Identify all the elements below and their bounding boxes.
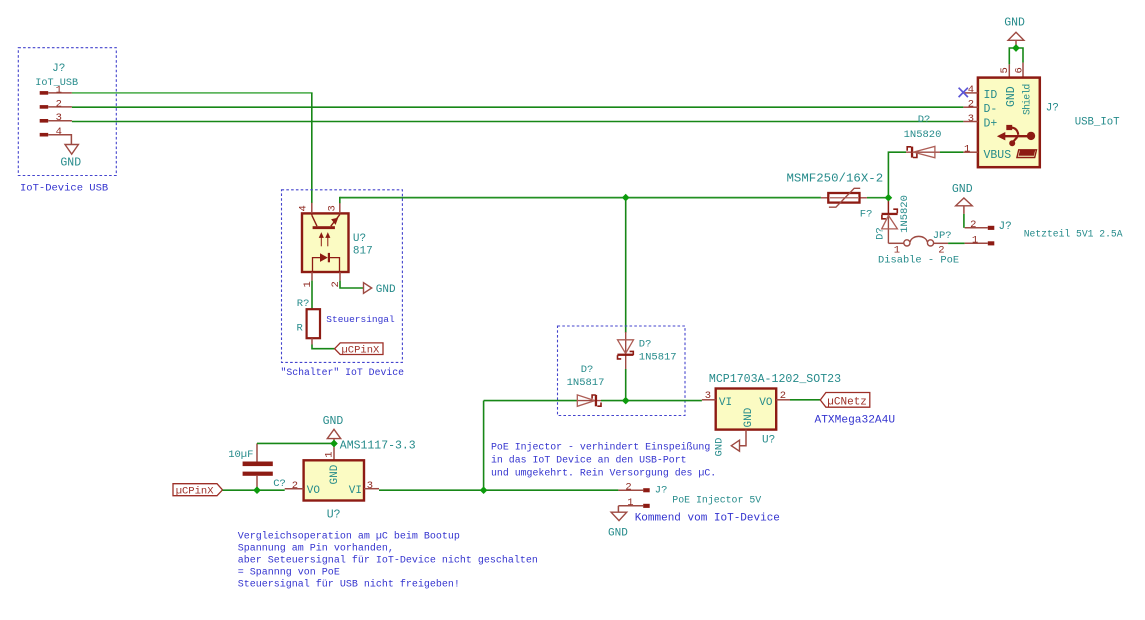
jumper JP? Disable-PoE	[888, 230, 951, 257]
AMS1117 pin 1 stub	[324, 448, 336, 461]
wire main 5V rail horizontal	[340, 197, 821, 199]
net label uCPinX (bottom)	[173, 484, 223, 498]
wire D+ net	[72, 121, 964, 123]
svg-text:ID: ID	[984, 89, 998, 102]
wire AMS VI to J? PoE injector	[379, 489, 618, 491]
opto U1 LED	[313, 253, 340, 272]
svg-text:GND: GND	[1004, 16, 1025, 29]
svg-text:U?: U?	[762, 435, 775, 447]
svg-text:IoT-Device USB: IoT-Device USB	[20, 182, 108, 194]
svg-text:MCP1703A-1202_SOT23: MCP1703A-1202_SOT23	[709, 373, 841, 386]
wire jumper to Netzteil pin1	[948, 242, 965, 244]
svg-text:10µF: 10µF	[228, 449, 253, 461]
net label uCNetz	[820, 393, 870, 409]
net label uCPinX (opto drive)	[335, 343, 383, 357]
USB J? pin 3 D+ stub	[963, 113, 978, 125]
svg-text:1N5817: 1N5817	[567, 377, 605, 389]
svg-text:VI: VI	[719, 397, 732, 409]
svg-text:und umgekehrt. Rein Versorgung: und umgekehrt. Rein Versorgung des µC.	[491, 467, 716, 478]
svg-text:J?: J?	[655, 485, 668, 497]
svg-text:Shield: Shield	[1022, 84, 1033, 115]
svg-text:in das IoT Device an den USB-P: in das IoT Device an den USB-Port	[491, 454, 687, 465]
wire junction down to disable diode	[887, 198, 889, 213]
svg-text:USB_IoT: USB_IoT	[1075, 116, 1120, 128]
svg-text:D?: D?	[581, 364, 594, 376]
wire D- net	[72, 106, 964, 108]
svg-text:PoE Injector - verhindert Eins: PoE Injector - verhindert Einspeißung	[491, 441, 710, 452]
opto U1 pin 1 stub	[302, 272, 314, 288]
fuse F? body	[821, 188, 873, 220]
wire resistor to uCPinX	[312, 338, 335, 349]
svg-text:MSMF250/16X-2: MSMF250/16X-2	[787, 171, 884, 185]
svg-text:GND: GND	[952, 183, 973, 196]
wire vertical poe to bottom rail	[483, 401, 485, 491]
svg-text:GND: GND	[608, 528, 628, 540]
svg-text:Steuersignal für USB nicht fre: Steuersignal für USB nicht freigeben!	[238, 579, 460, 591]
USB J? pin 2 D- stub	[963, 99, 978, 111]
svg-text:AMS1117-3.3: AMS1117-3.3	[340, 440, 416, 453]
svg-text:J?: J?	[999, 221, 1012, 233]
opto U1 phototransistor	[312, 213, 340, 229]
svg-text:D?: D?	[918, 114, 931, 126]
opto U1 pin 2 stub	[330, 272, 342, 288]
svg-text:C?: C?	[273, 478, 286, 490]
opto U1 pin 4 stub	[298, 203, 312, 214]
svg-text:GND: GND	[329, 464, 341, 484]
regulator U? MCP1703A body	[716, 389, 777, 430]
wire branch down from rail to PoE diode	[625, 198, 627, 333]
MCP1703 pin 2 VO	[759, 390, 790, 409]
USB receptacle icon	[1017, 150, 1037, 158]
svg-text:GND: GND	[376, 284, 396, 296]
svg-text:2: 2	[968, 99, 974, 111]
svg-text:3: 3	[327, 205, 339, 211]
frame PoE injector (dashed)	[558, 326, 686, 416]
svg-text:D?: D?	[874, 227, 886, 240]
capacitor C? lead top	[256, 443, 258, 461]
svg-text:2: 2	[56, 98, 62, 110]
junction GND usb top	[1012, 44, 1020, 52]
svg-text:"Schalter" IoT Device: "Schalter" IoT Device	[281, 367, 405, 378]
ground GND (USB_IoT top)	[1004, 16, 1025, 45]
diode D? 1N5820 (VBUS, horizontal)	[904, 114, 942, 158]
ground GND (AMS1117) symbol	[327, 429, 340, 447]
wire left feed into PoE diode	[484, 400, 578, 402]
wire MCP VO to uCNetz	[790, 399, 820, 401]
svg-text:Kommend vom IoT-Device: Kommend vom IoT-Device	[635, 512, 780, 524]
diode D? 1N5817 (horizontal)	[567, 364, 605, 406]
wire net1 vertical down to opto pin4	[311, 93, 313, 203]
wire diode to VBUS pin	[940, 151, 963, 153]
svg-text:1: 1	[964, 144, 970, 156]
ground GND (Netzteil)	[952, 183, 973, 228]
svg-text:3: 3	[367, 480, 373, 492]
svg-text:GND: GND	[60, 156, 81, 169]
wire GND to USB pins 5,6	[1009, 45, 1023, 64]
svg-text:GND: GND	[323, 415, 344, 428]
svg-text:1N5820: 1N5820	[899, 195, 911, 233]
junction capacitor	[253, 486, 261, 494]
svg-text:= Spannng von PoE: = Spannng von PoE	[238, 568, 340, 579]
USB connector J? USB_IoT body	[978, 78, 1040, 168]
svg-text:PoE Injector 5V: PoE Injector 5V	[672, 495, 761, 506]
MCP1703 pin 1 GND stub to ground	[740, 430, 746, 446]
svg-text:VO: VO	[759, 397, 773, 409]
svg-text:D-: D-	[984, 103, 998, 116]
svg-text:817: 817	[353, 246, 373, 258]
USB connector J? pin 6 stub	[1013, 63, 1025, 78]
svg-text:4: 4	[298, 205, 310, 211]
opto U1 pin 3 stub	[327, 203, 340, 214]
wire net1 horizontal (pin1 to opto)	[72, 92, 313, 94]
junction poe diodes	[622, 397, 630, 405]
svg-text:D?: D?	[639, 339, 652, 351]
wire uCPinX to AMS VO	[223, 489, 285, 491]
svg-text:J?: J?	[52, 63, 65, 75]
wire opto pin3 up to main rail	[339, 197, 341, 203]
svg-text:3: 3	[968, 113, 974, 125]
opto U1 light arrows	[320, 233, 330, 246]
connector J? pin 4	[40, 126, 72, 144]
frame "Schalter" IoT Device (dashed)	[282, 190, 403, 363]
svg-text:Netzteil 5V1 2.5A: Netzteil 5V1 2.5A	[1024, 228, 1123, 239]
svg-text:3: 3	[705, 390, 711, 402]
diode D? 1N5817 (vertical)	[617, 332, 676, 370]
svg-text:J?: J?	[1046, 103, 1059, 115]
svg-text:1N5820: 1N5820	[904, 129, 942, 141]
svg-text:1: 1	[972, 235, 978, 247]
svg-text:6: 6	[1013, 67, 1025, 73]
svg-text:2: 2	[625, 482, 631, 494]
connector J? pin 3	[40, 112, 72, 124]
ground GND (IoT-Device USB)	[60, 145, 81, 170]
svg-text:Vergleichsoperation am µC beim: Vergleichsoperation am µC beim Bootup	[238, 531, 460, 543]
USB J? pin 1 VBUS stub	[963, 144, 978, 156]
wire fuse to junction	[867, 197, 889, 199]
connector J? pin 1	[40, 84, 72, 96]
svg-text:4: 4	[56, 126, 62, 138]
svg-text:JP?: JP?	[933, 230, 952, 242]
USB pin names	[984, 84, 1033, 162]
svg-text:Disable - PoE: Disable - PoE	[878, 255, 959, 267]
connector J? PoE Injector 5V pin 1	[618, 497, 649, 512]
svg-text:R: R	[297, 322, 304, 334]
svg-text:Steuersingal: Steuersingal	[326, 314, 395, 325]
svg-text:µCNetz: µCNetz	[827, 396, 867, 408]
AMS1117 pin 2 VO	[285, 480, 321, 497]
svg-text:VBUS: VBUS	[984, 149, 1012, 162]
svg-text:1: 1	[627, 497, 633, 509]
diode D? 1N5820 (vertical, disable)	[874, 195, 911, 243]
resistor R? body	[307, 309, 320, 338]
MCP1703 pin 3 VI	[702, 390, 732, 409]
USB trident logo	[997, 125, 1035, 146]
ground GND (J? PoE pin1)	[608, 512, 628, 540]
regulator U? AMS1117 body	[304, 460, 364, 500]
junction rail/branch	[622, 194, 630, 202]
wire opto pin1 to resistor	[311, 281, 313, 310]
capacitor C? lead bottom	[256, 476, 258, 488]
svg-text:µCPinX: µCPinX	[342, 345, 381, 357]
svg-text:1: 1	[56, 84, 62, 96]
connector J? pin 2	[40, 98, 72, 110]
wire opto pin2 to GND	[340, 281, 363, 288]
wire poe junction to MCP1703 VI	[601, 400, 702, 402]
svg-text:F?: F?	[860, 209, 873, 221]
USB connector J? pin 5 stub	[999, 64, 1011, 77]
opto-coupler U1 817 body	[302, 213, 349, 272]
junction rail/fuse	[885, 194, 893, 202]
svg-text:5: 5	[999, 67, 1011, 73]
svg-text:D+: D+	[984, 118, 998, 131]
AMS1117 pin 3 VI	[349, 480, 379, 497]
wire junction up to VBUS diode	[888, 152, 906, 198]
connector J? Netzteil pin 1	[965, 235, 995, 247]
wire vertical diode to poe junction	[625, 369, 627, 401]
connector J? PoE Injector 5V pin 2	[618, 482, 649, 494]
svg-text:VO: VO	[307, 485, 321, 497]
ground GND (opto pin2)	[364, 283, 397, 296]
svg-text:GND: GND	[714, 438, 726, 457]
USB J? pin 4 ID stub with no-connect X	[959, 84, 978, 97]
svg-text:U?: U?	[327, 509, 341, 522]
svg-text:aber Seteuersignal für IoT-Dev: aber Seteuersignal für IoT-Device nicht …	[238, 555, 538, 567]
connector J? Netzteil pin 2	[965, 219, 995, 231]
ground GND (MCP1703)	[714, 438, 740, 457]
svg-text:µCPinX: µCPinX	[176, 486, 215, 498]
svg-text:2: 2	[292, 480, 298, 492]
svg-text:4: 4	[968, 84, 974, 96]
svg-text:Spannung am Pin vorhanden,: Spannung am Pin vorhanden,	[238, 543, 394, 555]
svg-text:2: 2	[970, 219, 976, 231]
junction bottom rail/vertical	[480, 486, 488, 494]
frame IoT-Device USB (dashed)	[18, 48, 116, 176]
svg-text:3: 3	[56, 112, 62, 124]
svg-text:VI: VI	[349, 485, 362, 497]
svg-text:1: 1	[324, 451, 336, 457]
svg-text:GND: GND	[743, 407, 755, 427]
wire cap top to AMS gnd junction	[257, 442, 332, 444]
svg-text:ATXMega32A4U: ATXMega32A4U	[815, 414, 896, 426]
junction AMS gnd	[330, 440, 338, 448]
svg-text:1N5817: 1N5817	[639, 351, 677, 363]
svg-text:2: 2	[780, 390, 786, 402]
svg-text:U?: U?	[353, 233, 366, 245]
svg-text:GND: GND	[1005, 86, 1018, 107]
capacitor C? plates	[243, 462, 273, 476]
